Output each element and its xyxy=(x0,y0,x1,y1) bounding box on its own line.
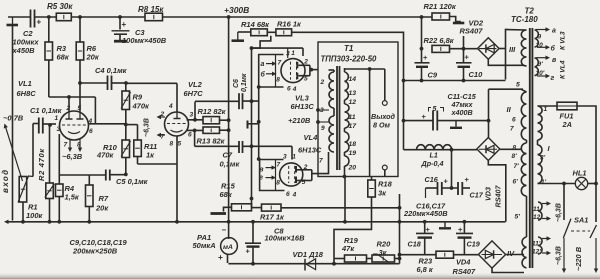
svg-text:12': 12' xyxy=(532,249,541,256)
svg-text:R22 6,8к: R22 6,8к xyxy=(424,36,455,45)
svg-text:+: + xyxy=(246,247,251,256)
svg-text:+210В: +210В xyxy=(288,116,311,125)
svg-text:6: 6 xyxy=(89,128,93,135)
svg-text:R7: R7 xyxy=(99,194,109,203)
svg-text:R17 1к: R17 1к xyxy=(260,213,285,222)
svg-text:~6,3В: ~6,3В xyxy=(556,246,563,265)
svg-text:R14 68к: R14 68к xyxy=(241,20,270,29)
svg-text:8': 8' xyxy=(512,153,518,160)
svg-text:R5 30к: R5 30к xyxy=(47,2,73,11)
svg-text:6Н7С: 6Н7С xyxy=(184,89,204,98)
svg-text:470к: 470к xyxy=(132,102,151,111)
svg-text:+: + xyxy=(422,112,427,121)
svg-text:HL1: HL1 xyxy=(573,169,587,178)
svg-text:ТС-180: ТС-180 xyxy=(511,15,538,24)
svg-text:9: 9 xyxy=(538,34,542,41)
svg-text:+: + xyxy=(444,177,449,186)
svg-text:47к: 47к xyxy=(341,244,355,253)
svg-text:б: б xyxy=(261,71,266,79)
svg-text:3к: 3к xyxy=(379,248,388,257)
svg-text:вход: вход xyxy=(1,168,10,193)
svg-text:VD4: VD4 xyxy=(456,258,470,267)
svg-text:C10: C10 xyxy=(469,70,484,79)
svg-text:0,1мк: 0,1мк xyxy=(220,160,241,169)
svg-text:+: + xyxy=(465,175,470,184)
svg-text:а: а xyxy=(261,61,265,68)
svg-text:68к: 68к xyxy=(57,53,70,62)
svg-text:7: 7 xyxy=(510,126,514,133)
svg-text:+: + xyxy=(465,53,470,62)
svg-text:R21 120к: R21 120к xyxy=(424,2,457,11)
svg-text:14: 14 xyxy=(349,76,357,83)
svg-text:+: + xyxy=(423,53,428,62)
svg-text:C5 0,1мк: C5 0,1мк xyxy=(116,177,149,186)
svg-text:IV: IV xyxy=(507,249,515,258)
svg-text:C1 0,1мк: C1 0,1мк xyxy=(30,106,63,115)
svg-text:C7: C7 xyxy=(223,151,233,160)
svg-text:RS407: RS407 xyxy=(453,267,476,276)
svg-text:8: 8 xyxy=(170,141,174,148)
svg-text:2: 2 xyxy=(320,79,325,86)
svg-text:ТПП303-220-50: ТПП303-220-50 xyxy=(321,55,378,64)
svg-text:100мк×16В: 100мк×16В xyxy=(265,234,306,243)
svg-text:VL4: VL4 xyxy=(304,133,319,142)
svg-text:RS407: RS407 xyxy=(494,185,503,208)
svg-text:RS407: RS407 xyxy=(460,27,484,36)
svg-text:19: 19 xyxy=(349,150,357,157)
svg-text:R13 82к: R13 82к xyxy=(197,136,226,145)
svg-text:1к: 1к xyxy=(146,151,155,160)
svg-text:3': 3' xyxy=(540,155,546,162)
svg-text:18: 18 xyxy=(349,141,357,148)
svg-text:10: 10 xyxy=(536,42,544,49)
svg-text:х450В: х450В xyxy=(12,46,36,55)
svg-text:1: 1 xyxy=(544,106,548,113)
svg-text:R8 15к: R8 15к xyxy=(138,5,164,14)
svg-text:III: III xyxy=(509,45,516,54)
svg-text:+300В: +300В xyxy=(224,5,249,15)
svg-text:3: 3 xyxy=(283,154,287,161)
svg-text:4: 4 xyxy=(292,191,297,198)
svg-text:9': 9' xyxy=(538,61,544,68)
svg-text:8: 8 xyxy=(276,77,280,84)
svg-text:7': 7' xyxy=(514,163,520,170)
svg-text:5: 5 xyxy=(433,106,437,113)
svg-text:11: 11 xyxy=(533,206,540,213)
svg-text:7: 7 xyxy=(64,142,68,149)
svg-text:~0,7В: ~0,7В xyxy=(3,114,24,123)
svg-text:5: 5 xyxy=(304,76,308,83)
svg-text:3к: 3к xyxy=(378,189,387,198)
svg-text:VL2: VL2 xyxy=(188,80,203,89)
svg-text:К VL3: К VL3 xyxy=(560,31,567,50)
svg-text:1': 1' xyxy=(541,179,547,186)
svg-text:~220 В: ~220 В xyxy=(574,246,583,271)
svg-text:C4 0,1мк: C4 0,1мк xyxy=(95,66,128,75)
svg-text:6,8 к: 6,8 к xyxy=(417,265,434,274)
svg-text:C9: C9 xyxy=(428,71,438,80)
svg-text:7: 7 xyxy=(319,158,323,165)
svg-text:С6: С6 xyxy=(233,79,240,88)
svg-text:+: + xyxy=(218,252,223,262)
svg-text:SA1: SA1 xyxy=(574,215,588,224)
svg-text:7: 7 xyxy=(278,59,282,66)
svg-text:20: 20 xyxy=(348,165,357,172)
svg-text:5: 5 xyxy=(78,105,82,112)
svg-text:~6,3В: ~6,3В xyxy=(62,152,83,161)
svg-text:200мк×250В: 200мк×250В xyxy=(72,247,118,256)
svg-text:VD1 Д18: VD1 Д18 xyxy=(293,250,324,259)
svg-text:470к: 470к xyxy=(96,151,115,160)
svg-text:20к: 20к xyxy=(95,204,109,213)
svg-text:6Н8С: 6Н8С xyxy=(17,89,37,98)
svg-text:2: 2 xyxy=(66,105,71,112)
svg-text:20к: 20к xyxy=(86,53,100,62)
svg-text:~6,3В: ~6,3В xyxy=(556,203,563,222)
svg-text:C19: C19 xyxy=(467,240,480,249)
svg-text:1: 1 xyxy=(292,154,296,161)
svg-text:1: 1 xyxy=(55,115,59,122)
svg-text:+: + xyxy=(122,20,127,29)
svg-text:VL1: VL1 xyxy=(18,79,32,88)
svg-text:С16: С16 xyxy=(425,175,439,184)
svg-text:R16 1к: R16 1к xyxy=(277,20,302,29)
svg-text:220мк×450В: 220мк×450В xyxy=(403,209,448,218)
svg-text:К VL4: К VL4 xyxy=(560,60,567,79)
svg-text:~6,3В: ~6,3В xyxy=(144,118,151,137)
svg-text:R2 470к: R2 470к xyxy=(37,148,46,181)
svg-text:г: г xyxy=(259,175,263,182)
svg-text:г: г xyxy=(551,75,555,82)
svg-text:R9: R9 xyxy=(133,93,143,102)
svg-text:C18: C18 xyxy=(408,240,421,249)
svg-text:7: 7 xyxy=(277,162,281,169)
svg-text:2А: 2А xyxy=(562,120,572,129)
svg-text:9: 9 xyxy=(321,125,325,132)
svg-text:х400В: х400В xyxy=(451,108,473,117)
svg-text:4: 4 xyxy=(292,86,297,93)
svg-text:50мкА: 50мкА xyxy=(193,241,216,250)
svg-text:R12 82к: R12 82к xyxy=(198,107,227,116)
svg-text:8: 8 xyxy=(513,145,517,152)
svg-text:13: 13 xyxy=(349,90,357,97)
svg-text:6Н13С: 6Н13С xyxy=(291,102,315,111)
svg-text:3: 3 xyxy=(190,112,194,119)
svg-text:4: 4 xyxy=(168,103,173,110)
svg-text:5': 5' xyxy=(515,214,521,221)
svg-text:б: б xyxy=(551,45,556,53)
svg-text:17: 17 xyxy=(349,123,358,130)
svg-text:11': 11' xyxy=(532,241,541,248)
svg-text:6: 6 xyxy=(512,117,516,124)
svg-text:Др-0,4: Др-0,4 xyxy=(421,159,444,168)
svg-text:мА: мА xyxy=(223,244,233,251)
svg-text:−: − xyxy=(222,226,227,235)
svg-text:2: 2 xyxy=(303,58,308,65)
svg-text:4: 4 xyxy=(88,118,93,125)
svg-text:6: 6 xyxy=(286,191,290,198)
svg-text:а: а xyxy=(552,28,556,35)
svg-text:Т1: Т1 xyxy=(344,44,354,53)
svg-text:6: 6 xyxy=(287,85,291,92)
svg-text:12: 12 xyxy=(533,214,541,221)
svg-text:6': 6' xyxy=(513,179,519,186)
svg-text:3: 3 xyxy=(57,126,61,133)
svg-text:12: 12 xyxy=(349,99,357,106)
svg-text:8: 8 xyxy=(276,179,280,186)
svg-text:6: 6 xyxy=(188,131,192,138)
svg-text:+: + xyxy=(37,18,42,27)
svg-text:C17: C17 xyxy=(470,191,484,200)
svg-text:R18: R18 xyxy=(378,180,393,189)
svg-text:11: 11 xyxy=(349,114,356,121)
svg-text:1,5к: 1,5к xyxy=(65,193,80,202)
svg-text:8 Ом: 8 Ом xyxy=(373,121,391,130)
svg-text:5: 5 xyxy=(178,141,182,148)
svg-text:100мк×450В: 100мк×450В xyxy=(122,36,167,45)
svg-text:5: 5 xyxy=(516,82,520,89)
svg-text:0,1мк: 0,1мк xyxy=(241,73,248,92)
svg-text:68к: 68к xyxy=(220,190,233,199)
svg-text:1: 1 xyxy=(291,50,295,57)
svg-text:100к: 100к xyxy=(26,211,44,220)
svg-text:VD3: VD3 xyxy=(484,187,493,201)
